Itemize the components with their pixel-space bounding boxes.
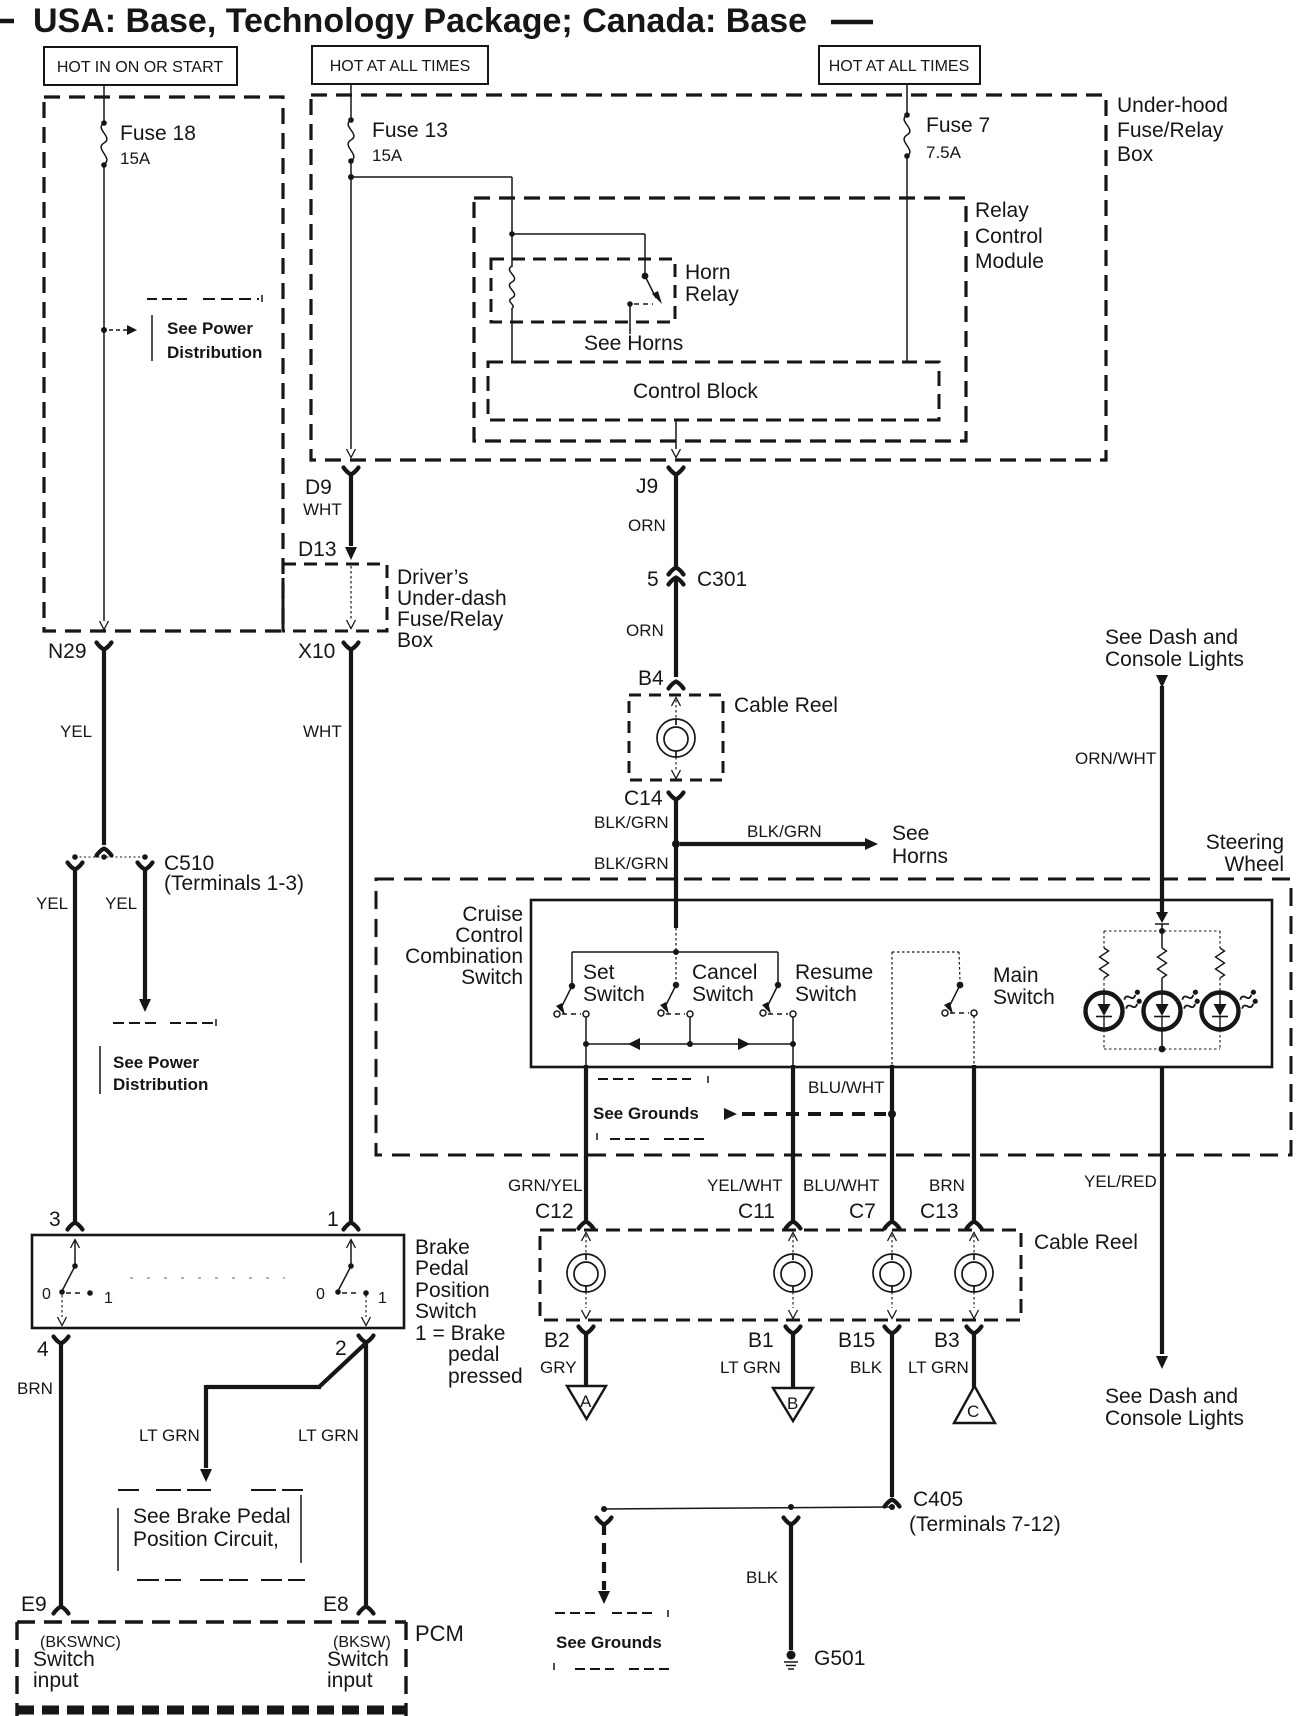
wire LT GRN B1 to terminal B <box>720 1332 793 1388</box>
switch bus with direction arrows <box>583 1038 796 1050</box>
svg-text:3: 3 <box>49 1208 61 1231</box>
svg-text:BLU/WHT: BLU/WHT <box>803 1176 880 1195</box>
node E8 <box>323 1593 374 1616</box>
wire control block to J9 <box>672 420 681 458</box>
box: cable reel lower (dashed) <box>540 1230 1021 1320</box>
svg-text:Pedal: Pedal <box>415 1257 469 1280</box>
wire WHT D9 to D13 <box>303 473 351 546</box>
wire stub from HOT AT ALL TIMES right to fuse box <box>906 84 908 95</box>
cancel switch <box>658 952 693 1044</box>
svg-text:Switch: Switch <box>33 1648 95 1671</box>
wire ORN/WHT from dash lights <box>1075 675 1168 912</box>
connector C301 pin 5 <box>647 568 747 592</box>
label (BKSWNC) switch input <box>33 1634 121 1692</box>
svg-text:B1: B1 <box>748 1329 774 1352</box>
fuse F13 15A <box>348 95 448 165</box>
svg-text:C405: C405 <box>913 1488 963 1511</box>
svg-text:Console Lights: Console Lights <box>1105 648 1244 671</box>
label Brake Pedal Position Switch <box>415 1236 523 1388</box>
svg-text:E9: E9 <box>21 1593 47 1616</box>
box: brake pedal position switch (solid) <box>32 1235 404 1328</box>
wire BLK B15 down to C405 <box>850 1332 892 1497</box>
svg-text:D13: D13 <box>298 538 337 561</box>
connector C510 (Terminals 1-3) <box>72 849 304 896</box>
node B15 <box>838 1327 900 1353</box>
box: driver's under-dash fuse/relay box (dashed) <box>283 564 387 631</box>
svg-text:ORN/WHT: ORN/WHT <box>1075 749 1156 768</box>
svg-text:A: A <box>580 1392 592 1411</box>
svg-text:5: 5 <box>647 568 659 591</box>
svg-text:C: C <box>967 1402 979 1421</box>
svg-text:(Terminals 7-12): (Terminals 7-12) <box>909 1513 1061 1536</box>
box: cable reel upper (dashed) <box>629 695 723 780</box>
reference block See Grounds (steering) <box>593 1076 708 1140</box>
node D13 arrow <box>298 538 357 561</box>
node N29 <box>48 640 112 663</box>
box: left fuse box (dashed) <box>44 97 283 631</box>
label Steering Wheel <box>1206 831 1284 876</box>
connector C11 <box>738 1200 801 1229</box>
svg-text:1 = Brake: 1 = Brake <box>415 1322 505 1345</box>
label Under-hood Fuse/Relay Box <box>1117 94 1228 166</box>
wire inside driver's box D13 to X10 <box>347 566 356 629</box>
svg-text:Switch: Switch <box>583 983 645 1006</box>
svg-text:4: 4 <box>37 1338 49 1361</box>
svg-text:Cruise: Cruise <box>462 903 523 926</box>
svg-text:pressed: pressed <box>448 1365 523 1388</box>
label Resume Switch <box>795 961 873 1006</box>
svg-text:Brake: Brake <box>415 1236 470 1259</box>
terminal below C510 left <box>68 863 83 870</box>
svg-text:Distribution: Distribution <box>167 343 262 362</box>
svg-text:HOT AT ALL TIMES: HOT AT ALL TIMES <box>829 58 970 75</box>
svg-text:15A: 15A <box>120 149 151 168</box>
svg-text:LT GRN: LT GRN <box>298 1426 359 1445</box>
svg-text:(Terminals 1-3): (Terminals 1-3) <box>164 872 304 895</box>
svg-text:GRY: GRY <box>540 1358 577 1377</box>
node C14 <box>624 787 684 810</box>
svg-text:YEL: YEL <box>60 722 92 741</box>
node X10 <box>298 640 359 663</box>
svg-text:Relay: Relay <box>975 199 1029 222</box>
svg-text:See Dash and: See Dash and <box>1105 1385 1238 1408</box>
svg-text:Resume: Resume <box>795 961 873 984</box>
diode arrow into lamp node <box>1155 912 1169 931</box>
wire YEL C510 left branch down <box>36 868 75 1221</box>
svg-text:Combination: Combination <box>405 945 523 968</box>
label (BKSW) switch input <box>327 1634 391 1692</box>
svg-text:PCM: PCM <box>415 1621 464 1646</box>
svg-text:Driver’s: Driver’s <box>397 566 469 589</box>
horn relay coil <box>509 266 514 362</box>
svg-text:BLK/GRN: BLK/GRN <box>594 854 669 873</box>
wire LT GRN terminal 2 to E8 <box>364 1341 368 1605</box>
svg-text:Horns: Horns <box>892 845 948 868</box>
svg-text:See Dash and: See Dash and <box>1105 626 1238 649</box>
reference block See Brake Pedal Position Circuit <box>118 1490 305 1580</box>
title USA: Base, Technology Package; Canada: Base <box>0 2 873 40</box>
svg-text:YEL: YEL <box>36 894 68 913</box>
label Cancel Switch <box>692 961 757 1006</box>
node E9 <box>21 1593 69 1616</box>
connector C405 (Terminals 7-12) <box>885 1488 1061 1536</box>
node D9 <box>305 468 359 500</box>
svg-text:1: 1 <box>378 1290 387 1307</box>
junction dot relay branch <box>509 231 515 237</box>
svg-text:BRN: BRN <box>17 1379 53 1398</box>
dashed wire to see grounds arrow <box>598 1524 610 1604</box>
svg-text:X10: X10 <box>298 640 335 663</box>
label box HOT IN ON OR START <box>44 47 237 85</box>
svg-text:B3: B3 <box>934 1329 960 1352</box>
wire YEL N29 to C510 <box>60 648 104 845</box>
svg-text:See Grounds: See Grounds <box>556 1633 662 1652</box>
wire LT GRN B3 to terminal C <box>908 1332 974 1388</box>
svg-text:Fuse 13: Fuse 13 <box>372 119 448 142</box>
svg-text:1: 1 <box>104 1290 113 1307</box>
resistor center <box>1158 948 1167 978</box>
wire BRN main switch down <box>929 1065 974 1220</box>
wire YEL C510 right branch to See Power Distribution <box>105 869 151 1012</box>
reference block See Grounds (lower) <box>554 1610 669 1670</box>
svg-text:Position: Position <box>415 1279 490 1302</box>
box: PCM (dashed) <box>17 1622 406 1716</box>
wire BLK to G501 <box>746 1523 791 1650</box>
svg-text:LT GRN: LT GRN <box>720 1358 781 1377</box>
box: under-hood fuse/relay box (dashed) <box>311 95 1106 460</box>
svg-text:Box: Box <box>1117 143 1154 166</box>
wire BLU/WHT main switch down <box>803 1065 892 1220</box>
svg-text:Set: Set <box>583 961 615 984</box>
label Cruise Control Combination Switch <box>405 903 523 989</box>
box: cruise control combination switch (solid) <box>531 900 1272 1067</box>
svg-text:Control Block: Control Block <box>633 380 758 403</box>
wire YEL/RED lamps down <box>1084 1067 1168 1369</box>
wire branch to relay control module <box>351 177 512 267</box>
horn relay switch contact <box>627 273 662 334</box>
indicator lamp right <box>1202 989 1261 1030</box>
box: control block (dashed) <box>488 362 939 420</box>
svg-text:See Brake Pedal: See Brake Pedal <box>133 1505 291 1528</box>
node B3 <box>934 1327 982 1353</box>
svg-text:HOT AT ALL TIMES: HOT AT ALL TIMES <box>330 58 471 75</box>
svg-text:ORN: ORN <box>626 621 664 640</box>
svg-text:C13: C13 <box>920 1200 959 1223</box>
wire stub from HOT IN ON OR START to fuse box <box>103 85 105 97</box>
svg-text:See: See <box>892 822 929 845</box>
svg-text:BLK: BLK <box>850 1358 883 1377</box>
svg-text:See Power: See Power <box>113 1053 199 1072</box>
label See Dash and Console Lights (bottom) <box>1105 1385 1244 1430</box>
wire BLK/GRN into switch <box>674 899 678 951</box>
brake switch right contact set <box>316 1240 387 1326</box>
svg-text:Box: Box <box>397 629 434 652</box>
svg-text:B4: B4 <box>638 667 664 690</box>
node B4 <box>638 667 684 690</box>
svg-text:Wheel: Wheel <box>1224 853 1284 876</box>
svg-text:WHT: WHT <box>303 722 342 741</box>
svg-text:B2: B2 <box>544 1329 570 1352</box>
svg-text:2: 2 <box>335 1337 347 1360</box>
wire junction line below C405 <box>601 1504 892 1512</box>
wire LT GRN branch to brake pedal circuit <box>139 1343 366 1482</box>
svg-text:B: B <box>787 1394 798 1413</box>
svg-text:See Grounds: See Grounds <box>593 1104 699 1123</box>
box: steering wheel (dashed) <box>376 879 1291 1155</box>
svg-text:BLK/GRN: BLK/GRN <box>594 813 669 832</box>
svg-text:Steering: Steering <box>1206 831 1284 854</box>
brake switch left contact set <box>42 1240 113 1326</box>
terminal below junction left <box>597 1518 612 1525</box>
reference block See Power Distribution (upper) <box>147 295 262 362</box>
svg-text:YEL: YEL <box>105 894 137 913</box>
svg-text:Position Circuit,: Position Circuit, <box>133 1528 279 1551</box>
terminal 2 <box>335 1336 374 1361</box>
svg-text:Distribution: Distribution <box>113 1075 208 1094</box>
svg-text:Console Lights: Console Lights <box>1105 1407 1244 1430</box>
wire stub from HOT AT ALL TIMES left to fuse box <box>350 84 352 95</box>
svg-text:B15: B15 <box>838 1329 875 1352</box>
lamp bottom rail <box>1104 1030 1220 1052</box>
svg-text:Under-hood: Under-hood <box>1117 94 1228 117</box>
svg-text:G501: G501 <box>814 1647 865 1670</box>
resume switch <box>760 982 796 1065</box>
svg-text:Control: Control <box>455 924 523 947</box>
lamp legs <box>1104 978 1220 992</box>
indicator lamp center <box>1144 989 1203 1030</box>
cable reel upper internals <box>657 698 695 779</box>
wire GRN/YEL set switch down <box>508 1065 586 1220</box>
connector C7 <box>849 1200 900 1229</box>
box: relay control module (dashed) <box>474 198 966 441</box>
svg-text:N29: N29 <box>48 640 87 663</box>
connector C12 <box>535 1200 594 1229</box>
svg-text:C301: C301 <box>697 568 747 591</box>
svg-text:input: input <box>33 1669 79 1692</box>
svg-text:Fuse 18: Fuse 18 <box>120 122 196 145</box>
svg-text:15A: 15A <box>372 146 403 165</box>
svg-text:YEL/WHT: YEL/WHT <box>707 1176 783 1195</box>
terminal 3 <box>49 1208 83 1231</box>
svg-text:0: 0 <box>42 1286 51 1303</box>
wire fuse7 to control block <box>906 156 908 362</box>
svg-text:C11: C11 <box>738 1200 775 1223</box>
svg-text:C7: C7 <box>849 1200 876 1223</box>
svg-text:HOT IN ON OR START: HOT IN ON OR START <box>57 59 223 76</box>
label Relay Control Module <box>975 199 1044 273</box>
resistor right <box>1216 948 1225 978</box>
cable reel lower internals C12 <box>567 1233 605 1319</box>
cable reel lower internals C13 <box>955 1233 993 1319</box>
terminal B triangle <box>773 1388 813 1421</box>
connector C13 <box>920 1200 982 1229</box>
svg-text:Switch: Switch <box>327 1648 389 1671</box>
svg-text:Main: Main <box>993 964 1039 987</box>
svg-text:Module: Module <box>975 250 1044 273</box>
svg-text:Under-dash: Under-dash <box>397 587 507 610</box>
svg-text:C14: C14 <box>624 787 663 810</box>
svg-text:7.5A: 7.5A <box>926 143 962 162</box>
terminal below C510 right <box>138 863 153 870</box>
svg-text:WHT: WHT <box>303 500 342 519</box>
svg-text:Horn: Horn <box>685 261 731 284</box>
fuse F7 7.5A <box>904 95 990 162</box>
wire to horn relay switch <box>512 234 645 273</box>
wire WHT X10 to brake pedal position switch <box>303 648 351 1221</box>
label Set Switch <box>583 961 645 1006</box>
label Horn Relay <box>685 261 739 306</box>
cable reel lower internals C11 <box>774 1233 812 1319</box>
cable reel lower internals C7 <box>873 1233 911 1319</box>
svg-text:Switch: Switch <box>795 983 857 1006</box>
set switch <box>554 983 589 1065</box>
label box HOT AT ALL TIMES (left) <box>312 46 488 84</box>
svg-text:C12: C12 <box>535 1200 574 1223</box>
dashed arrow to See Power Distribution <box>109 325 137 335</box>
svg-text:YEL/RED: YEL/RED <box>1084 1172 1157 1191</box>
switch feed rail <box>572 949 778 985</box>
svg-text:Switch: Switch <box>692 983 754 1006</box>
junction dot on fuse18 wire <box>101 327 107 333</box>
label box HOT AT ALL TIMES (right) <box>819 46 980 84</box>
svg-text:LT GRN: LT GRN <box>139 1426 200 1445</box>
junction dot fuse13 branch <box>348 174 354 180</box>
wire ORN J9 to C301 <box>628 473 676 566</box>
terminal 4 <box>37 1337 69 1362</box>
label Main Switch <box>993 964 1055 1009</box>
svg-text:BRN: BRN <box>929 1176 965 1195</box>
node B2 <box>544 1327 594 1353</box>
svg-text:Fuse 7: Fuse 7 <box>926 114 990 137</box>
terminal C triangle <box>954 1386 995 1423</box>
svg-text:pedal: pedal <box>448 1343 499 1366</box>
terminal below junction right <box>784 1518 799 1525</box>
main switch <box>892 952 977 1065</box>
svg-text:J9: J9 <box>636 475 658 498</box>
node B1 <box>748 1327 801 1353</box>
svg-text:BLK/GRN: BLK/GRN <box>747 822 822 841</box>
svg-text:Cable Reel: Cable Reel <box>1034 1231 1138 1254</box>
svg-text:Switch: Switch <box>993 986 1055 1009</box>
wire fuse13 down to D9 <box>347 161 356 458</box>
svg-text:input: input <box>327 1669 373 1692</box>
fuse F18 15A <box>101 97 196 168</box>
svg-text:ORN: ORN <box>628 516 666 535</box>
svg-text:See Horns: See Horns <box>584 332 683 355</box>
svg-text:Control: Control <box>975 225 1043 248</box>
resistor left <box>1100 948 1109 978</box>
wire ORN C301 to B4 <box>626 578 676 677</box>
svg-text:BLK: BLK <box>746 1568 779 1587</box>
terminal A triangle <box>567 1386 606 1419</box>
wire GRY B2 to terminal A <box>540 1332 586 1386</box>
svg-text:LT GRN: LT GRN <box>908 1358 969 1377</box>
reference block See Power Distribution (lower) <box>100 1019 216 1094</box>
ground G501 <box>784 1647 865 1670</box>
indicator lamp network rails <box>1104 928 1220 948</box>
label See Dash and Console Lights (top) <box>1105 626 1244 671</box>
junction dot BLK/GRN <box>672 840 680 848</box>
svg-text:Fuse/Relay: Fuse/Relay <box>1117 119 1224 142</box>
svg-text:0: 0 <box>316 1286 325 1303</box>
svg-text:BLU/WHT: BLU/WHT <box>808 1078 885 1097</box>
wire BRN terminal 4 to E9 <box>17 1342 61 1605</box>
terminal 1 <box>327 1208 359 1231</box>
svg-text:Switch: Switch <box>461 966 523 989</box>
wire BLK/GRN C14 down <box>594 798 676 899</box>
dotted divider in brake switch <box>130 1277 285 1279</box>
svg-text:D9: D9 <box>305 476 332 499</box>
wire fuse18 to N29 exit <box>100 165 109 630</box>
label Driver's Under-dash Fuse/Relay Box <box>397 566 507 652</box>
node J9 <box>636 468 684 499</box>
wire YEL/WHT resume switch down <box>707 1065 793 1220</box>
label See Horns (right) <box>892 822 948 868</box>
indicator lamp left <box>1086 989 1145 1030</box>
svg-text:GRN/YEL: GRN/YEL <box>508 1176 583 1195</box>
svg-text:1: 1 <box>327 1208 339 1231</box>
svg-text:USA: Base, Technology Package;: USA: Base, Technology Package; Canada: B… <box>33 2 807 40</box>
dashed wire BLU/WHT to see grounds <box>724 1078 896 1120</box>
svg-text:See Power: See Power <box>167 319 253 338</box>
svg-text:Cancel: Cancel <box>692 961 757 984</box>
svg-text:Cable Reel: Cable Reel <box>734 694 838 717</box>
svg-text:Relay: Relay <box>685 283 739 306</box>
wire BLK/GRN arrow to See Horns <box>680 822 878 850</box>
svg-text:E8: E8 <box>323 1593 349 1616</box>
svg-text:Switch: Switch <box>415 1300 477 1323</box>
box: horn relay (dashed) <box>491 259 675 322</box>
svg-text:Fuse/Relay: Fuse/Relay <box>397 608 504 631</box>
